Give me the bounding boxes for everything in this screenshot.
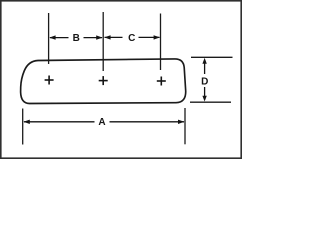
dimension A left extension line [22,109,24,145]
dimension D down arrow [202,87,206,102]
part outline [21,59,186,104]
hole center cross 1 [45,76,54,85]
label B [73,33,80,44]
hole center cross 2 [99,76,108,85]
dimension C line left arrow [104,35,122,39]
extension line 1 (left hole) [48,13,50,64]
extension line 2 (middle hole) [102,12,104,71]
dimension B line right arrow [84,35,103,39]
dimension D up arrow [202,58,206,74]
dimension D bottom extension line [190,101,231,103]
dimension A line right arrow [110,120,185,124]
svg-text:D: D [201,77,208,88]
dimension C line right arrow [139,35,161,39]
label D [201,77,208,88]
label A [98,117,105,128]
dimension D top extension line [191,56,233,58]
svg-text:B: B [73,33,80,44]
svg-text:A: A [98,117,105,128]
extension line 3 (right hole) [160,14,162,71]
label C [128,33,135,44]
svg-text:C: C [128,33,135,44]
dimension A right extension line [184,108,186,144]
border frame [1,1,241,158]
dimension B line left arrow [49,35,68,39]
hole center cross 3 [157,77,166,86]
dimension A line left arrow [23,120,94,124]
